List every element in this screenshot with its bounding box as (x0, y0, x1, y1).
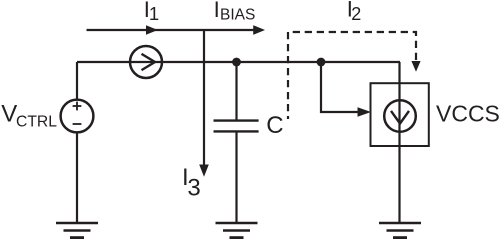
label I3 (182, 164, 201, 202)
wire: VCTRL to ground (76, 132, 78, 222)
arrowhead I2 (down into VCCS) (411, 61, 420, 72)
wire: VCCS control branch (321, 62, 358, 112)
label IBIAS (214, 0, 256, 23)
minus sign (73, 123, 82, 125)
wire: VCTRL to node (76, 62, 78, 100)
arrowhead VCCS control input (358, 107, 372, 116)
junction dot: control node (317, 58, 326, 67)
current source I1 circle (130, 46, 162, 78)
capacitor C plates (214, 121, 259, 132)
svg-text:C: C (266, 112, 283, 139)
ground (VCCS) (379, 223, 421, 238)
svg-text:V: V (1, 101, 17, 128)
arrowhead IBIAS (253, 25, 265, 35)
ground (VCTRL) (56, 223, 98, 238)
wire: VCCS vertical through box to ground (398, 62, 400, 223)
source VCTRL circle (61, 100, 94, 133)
svg-text:BIAS: BIAS (220, 6, 255, 23)
label VCTRL (1, 101, 57, 131)
wire: I1/IBIAS annotation line (87, 29, 257, 31)
svg-text:1: 1 (149, 3, 159, 24)
VCCS arrow chevron (down) (391, 111, 409, 124)
svg-text:VCCS: VCCS (436, 101, 500, 127)
wire: main node line (77, 61, 400, 63)
ground (capacitor) (216, 223, 258, 238)
plus sign (73, 102, 82, 111)
current source arrow chevron (142, 54, 156, 70)
arrowhead I1 (146, 25, 158, 35)
label I1 (144, 0, 159, 24)
VCCS box (371, 83, 429, 146)
svg-text:I: I (214, 0, 220, 22)
dashed wire I2 loop (288, 32, 416, 119)
arrowhead I3 (down) (199, 165, 209, 177)
label I2 (347, 0, 362, 24)
wire: I3 annotation line (203, 30, 205, 165)
junction dot: capacitor node (232, 58, 241, 67)
wire: capacitor top (235, 62, 237, 120)
svg-text:3: 3 (187, 175, 200, 202)
VCCS circle (384, 100, 416, 132)
svg-text:2: 2 (351, 4, 361, 24)
wire: capacitor to ground (235, 133, 237, 223)
svg-text:CTRL: CTRL (16, 113, 57, 130)
